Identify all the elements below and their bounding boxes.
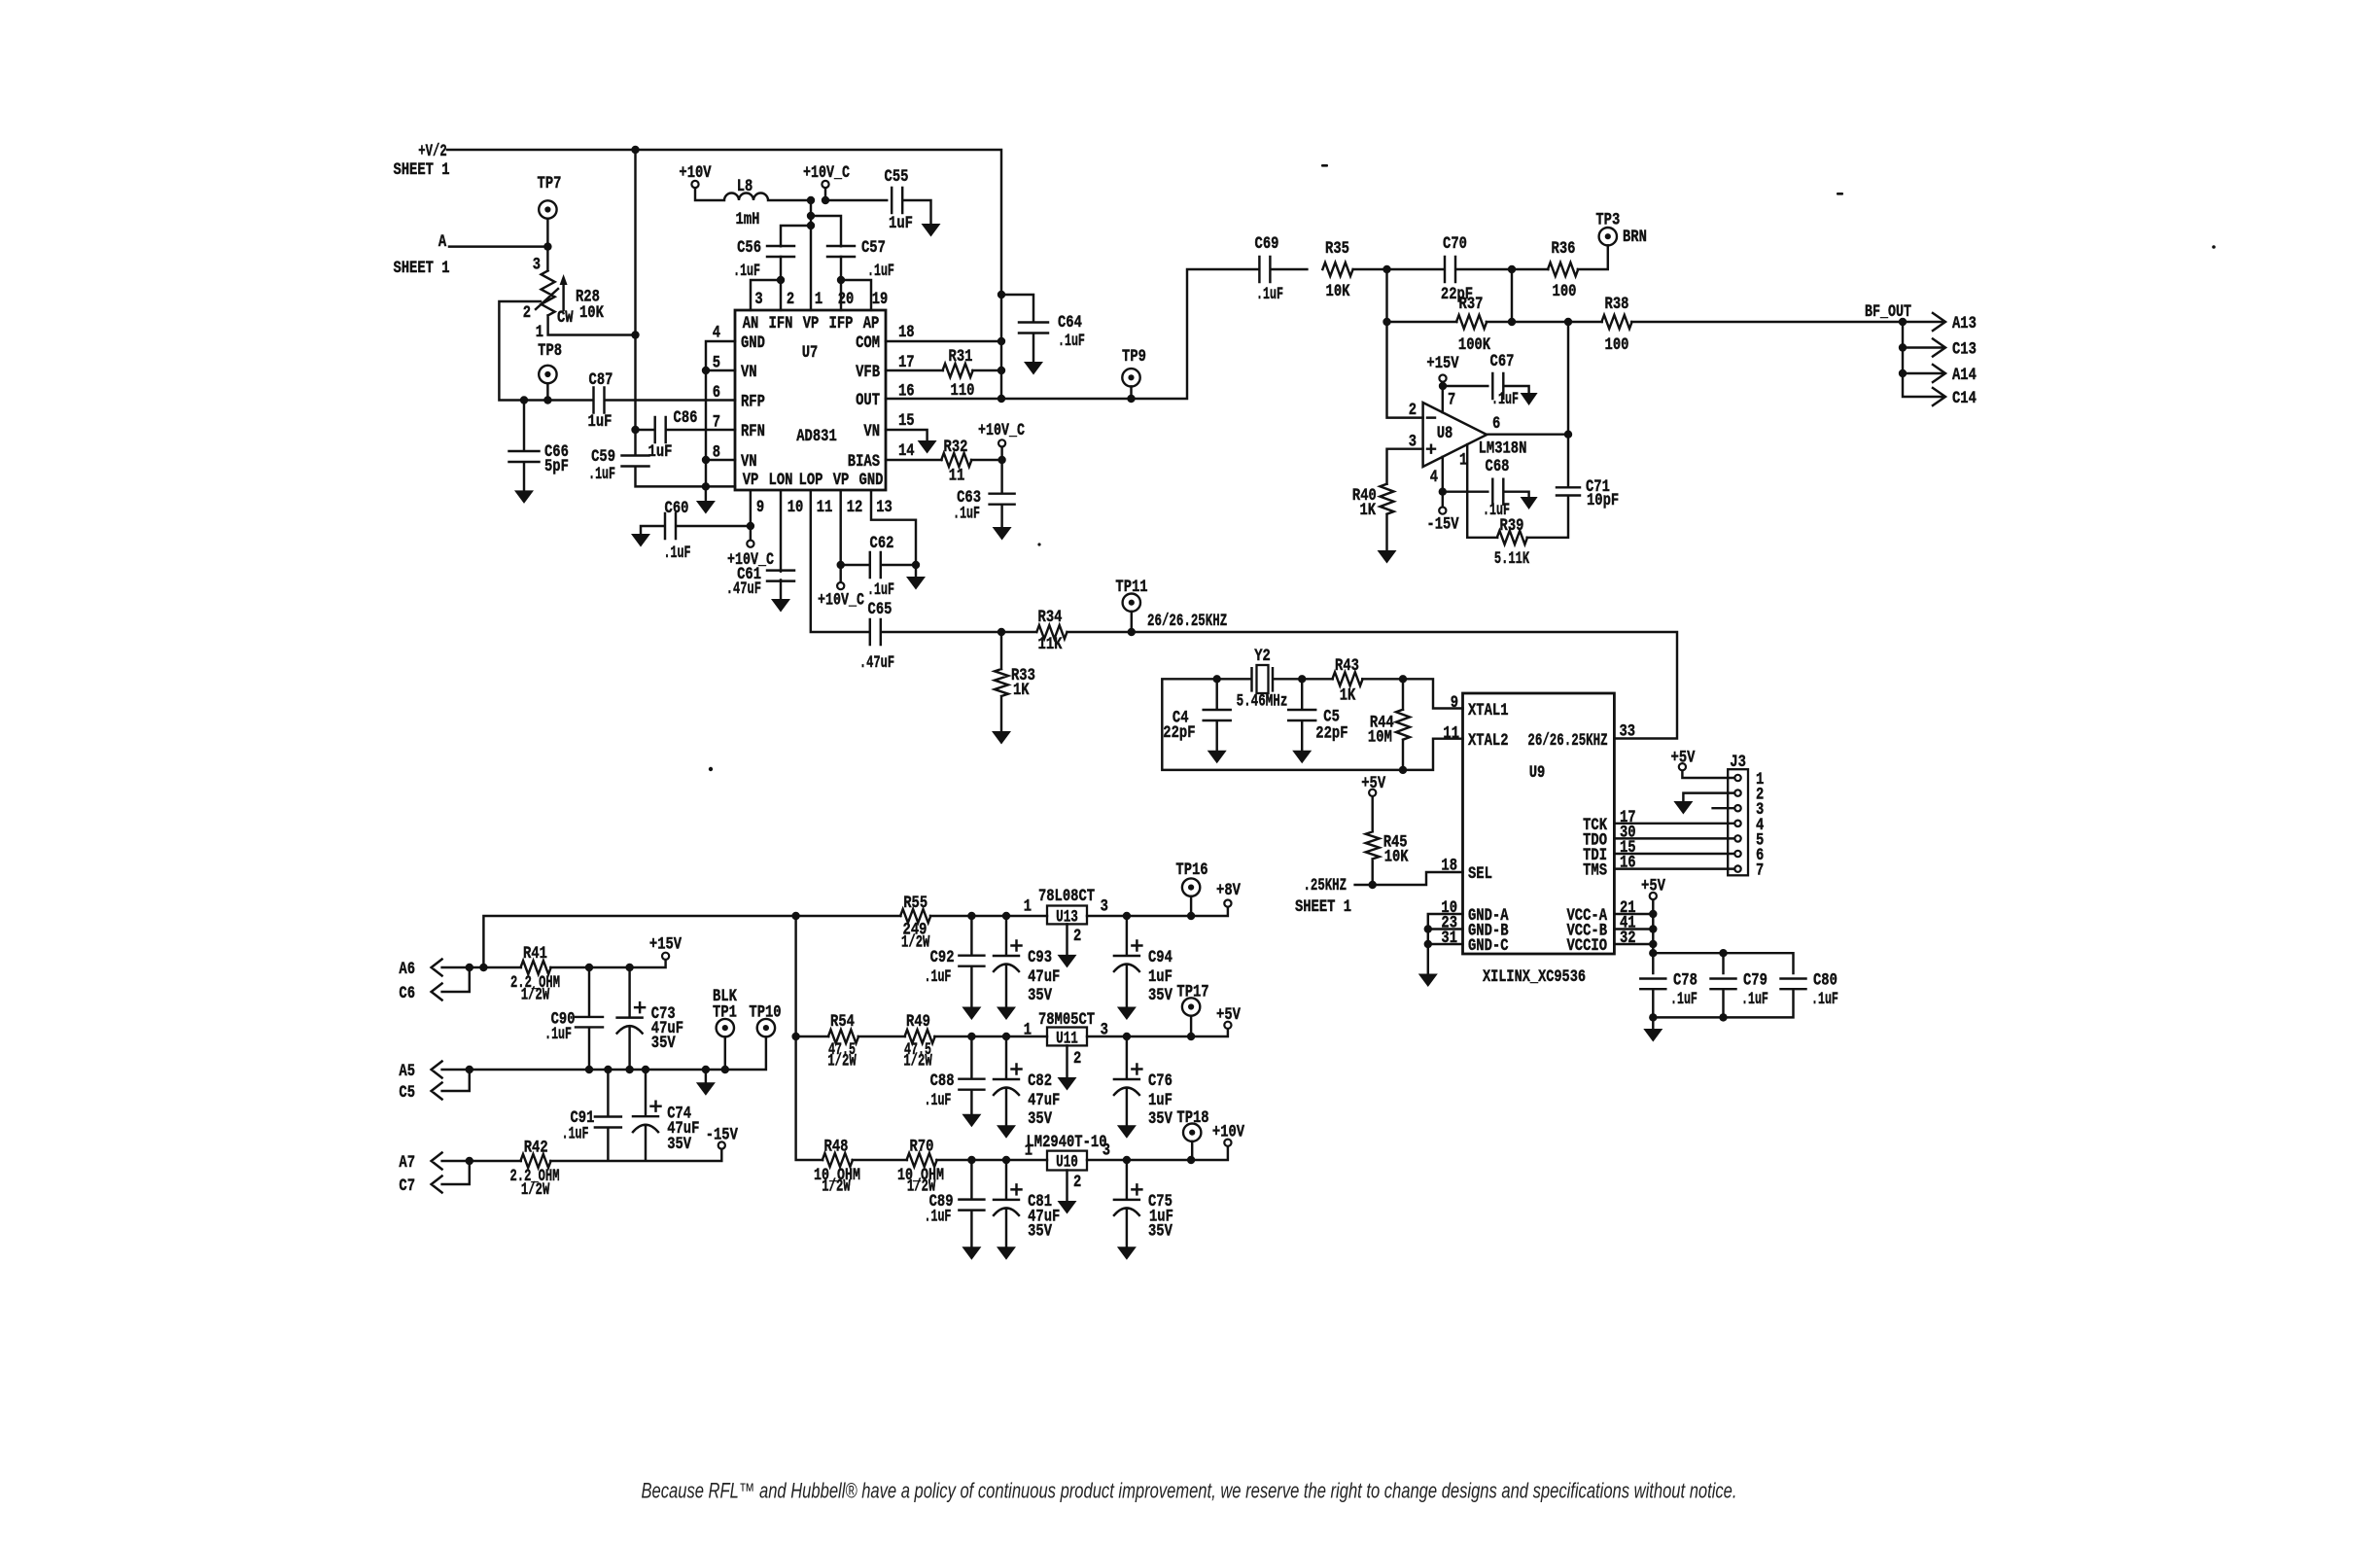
svg-text:TP10: TP10 (749, 1003, 781, 1023)
svg-text:.1uF: .1uF (925, 967, 952, 987)
svg-text:LOP: LOP (799, 471, 823, 490)
svg-text:32: 32 (1620, 929, 1636, 948)
svg-text:1: 1 (536, 323, 543, 342)
svg-text:TP9: TP9 (1122, 347, 1146, 367)
svg-text:.25KHZ: .25KHZ (1304, 876, 1347, 895)
svg-text:26/26.25KHZ: 26/26.25KHZ (1527, 731, 1607, 751)
svg-text:C57: C57 (861, 238, 886, 258)
svg-text:+5V: +5V (1216, 1005, 1241, 1025)
svg-text:C88: C88 (930, 1071, 955, 1091)
svg-text:10pF: 10pF (1587, 491, 1619, 510)
svg-text:-15V: -15V (1426, 515, 1459, 535)
svg-text:OUT: OUT (856, 391, 880, 410)
svg-text:1/2W: 1/2W (521, 986, 550, 1005)
svg-text:R54: R54 (830, 1012, 855, 1032)
svg-text:VP: VP (833, 471, 850, 490)
svg-text:35V: 35V (667, 1135, 691, 1154)
svg-text:100: 100 (1605, 335, 1629, 355)
svg-text:C93: C93 (1028, 948, 1052, 967)
svg-text:100: 100 (1553, 282, 1577, 301)
svg-text:LM318N: LM318N (1479, 439, 1527, 458)
svg-text:LM2940T-10: LM2940T-10 (1027, 1133, 1107, 1152)
svg-text:1mH: 1mH (736, 210, 760, 229)
svg-text:.1uF: .1uF (1058, 332, 1085, 351)
svg-text:+10V_C: +10V_C (803, 163, 850, 183)
svg-text:4: 4 (713, 324, 720, 343)
svg-text:TP11: TP11 (1115, 578, 1147, 597)
svg-text:U9: U9 (1529, 763, 1546, 783)
svg-text:3: 3 (1101, 896, 1108, 916)
svg-text:3: 3 (1102, 1141, 1110, 1161)
svg-text:1/2W: 1/2W (901, 932, 930, 952)
svg-text:SHEET 1: SHEET 1 (393, 259, 449, 278)
svg-text:2: 2 (1073, 927, 1081, 946)
svg-text:1: 1 (1459, 450, 1467, 470)
svg-text:A: A (438, 232, 447, 252)
svg-text:1: 1 (815, 290, 822, 309)
svg-text:U10: U10 (1056, 1153, 1078, 1173)
svg-text:C13: C13 (1952, 340, 1977, 360)
svg-text:C80: C80 (1813, 971, 1837, 991)
svg-text:+5V: +5V (1641, 877, 1665, 896)
svg-text:RFN: RFN (741, 422, 765, 441)
svg-text:2: 2 (787, 290, 794, 309)
svg-text:XTAL2: XTAL2 (1468, 731, 1509, 751)
svg-text:.1uF: .1uF (544, 1025, 572, 1044)
svg-text:2: 2 (1409, 401, 1417, 420)
svg-text:10: 10 (787, 498, 804, 517)
svg-text:J3: J3 (1730, 753, 1746, 772)
svg-text:U7: U7 (802, 343, 819, 363)
svg-text:R41: R41 (523, 944, 547, 964)
svg-text:47uF: 47uF (1028, 1091, 1060, 1110)
svg-text:35V: 35V (1148, 1221, 1172, 1241)
svg-text:IFN: IFN (769, 314, 793, 334)
svg-text:AD831: AD831 (796, 427, 837, 446)
svg-text:SEL: SEL (1468, 864, 1492, 884)
svg-text:12: 12 (847, 498, 863, 517)
svg-text:7: 7 (713, 413, 720, 433)
svg-text:3: 3 (533, 256, 541, 275)
svg-text:C87: C87 (589, 370, 613, 390)
svg-text:26/26.25KHZ: 26/26.25KHZ (1147, 612, 1227, 631)
svg-text:.1uF: .1uF (664, 544, 691, 563)
svg-text:35V: 35V (1028, 986, 1052, 1005)
svg-text:R48: R48 (824, 1138, 849, 1157)
svg-text:L8: L8 (737, 177, 753, 196)
svg-text:VN: VN (741, 363, 757, 382)
svg-text:+8V: +8V (1216, 881, 1241, 900)
svg-text:C69: C69 (1255, 234, 1279, 254)
svg-text:C64: C64 (1058, 313, 1082, 333)
svg-text:16: 16 (898, 382, 915, 402)
svg-text:35V: 35V (1148, 1109, 1172, 1129)
svg-text:U11: U11 (1056, 1030, 1078, 1049)
svg-text:R35: R35 (1325, 239, 1349, 259)
svg-text:10K: 10K (579, 303, 604, 323)
svg-text:C67: C67 (1490, 352, 1515, 371)
svg-text:+15V: +15V (1426, 354, 1459, 373)
svg-text:35V: 35V (1028, 1221, 1052, 1241)
svg-text:110: 110 (951, 381, 975, 401)
svg-text:100K: 100K (1458, 335, 1491, 355)
svg-text:19: 19 (872, 290, 889, 309)
svg-text:3: 3 (1101, 1021, 1108, 1040)
svg-text:5: 5 (713, 353, 720, 372)
svg-text:1uF: 1uF (648, 442, 673, 462)
svg-text:C94: C94 (1148, 948, 1172, 967)
svg-text:1/2W: 1/2W (827, 1052, 857, 1071)
svg-text:1K: 1K (1340, 685, 1356, 705)
svg-text:1/2W: 1/2W (903, 1052, 932, 1071)
svg-text:2: 2 (1073, 1173, 1081, 1192)
svg-text:AP: AP (863, 314, 880, 334)
svg-text:1: 1 (1025, 1141, 1032, 1161)
svg-text:R70: R70 (910, 1138, 934, 1157)
svg-text:35V: 35V (1028, 1109, 1052, 1129)
svg-text:.1uF: .1uF (867, 262, 894, 281)
svg-text:GND: GND (741, 334, 765, 353)
svg-text:14: 14 (898, 441, 915, 461)
svg-text:VP: VP (743, 471, 759, 490)
svg-text:78M05CT: 78M05CT (1038, 1010, 1095, 1030)
svg-text:22pF: 22pF (1315, 724, 1347, 744)
svg-text:11: 11 (1443, 724, 1459, 744)
svg-text:SHEET 1: SHEET 1 (393, 160, 449, 180)
svg-text:.47uF: .47uF (726, 579, 761, 599)
svg-text:-15V: -15V (706, 1126, 739, 1145)
svg-text:11: 11 (949, 467, 965, 486)
svg-text:Because RFL™ and Hubbell® have: Because RFL™ and Hubbell® have a policy … (642, 1479, 1737, 1503)
svg-text:.1uF: .1uF (1811, 990, 1838, 1009)
svg-text:2: 2 (1073, 1049, 1081, 1069)
svg-text:TP17: TP17 (1176, 983, 1208, 1002)
svg-text:C56: C56 (737, 238, 761, 258)
svg-text:11: 11 (817, 498, 833, 517)
svg-text:C92: C92 (930, 948, 955, 967)
svg-text:C7: C7 (399, 1176, 415, 1196)
svg-text:R38: R38 (1605, 295, 1629, 314)
svg-text:4: 4 (1430, 468, 1438, 487)
svg-text:.1uF: .1uF (1670, 990, 1697, 1009)
svg-text:.47uF: .47uF (859, 653, 894, 673)
svg-text:C55: C55 (885, 167, 909, 187)
svg-text:TMS: TMS (1583, 861, 1607, 881)
svg-text:C78: C78 (1673, 971, 1697, 991)
svg-text:78L08CT: 78L08CT (1038, 887, 1095, 906)
svg-text:.1uF: .1uF (925, 1091, 952, 1110)
svg-text:GND: GND (859, 471, 884, 490)
svg-text:AN: AN (743, 314, 759, 334)
svg-text:9: 9 (756, 498, 764, 517)
svg-text:C5: C5 (399, 1083, 415, 1103)
svg-text:3: 3 (754, 290, 762, 309)
svg-text:CW: CW (557, 308, 574, 328)
svg-text:U8: U8 (1437, 424, 1453, 443)
svg-text:17: 17 (898, 353, 915, 372)
svg-text:C70: C70 (1443, 234, 1467, 254)
svg-text:.1uF: .1uF (925, 1208, 952, 1227)
svg-text:BIAS: BIAS (848, 452, 880, 472)
svg-text:.1uF: .1uF (867, 580, 894, 600)
svg-text:11K: 11K (1038, 635, 1063, 654)
svg-text:31: 31 (1441, 929, 1457, 948)
svg-text:16: 16 (1620, 854, 1636, 873)
svg-text:IFP: IFP (829, 314, 854, 334)
svg-text:35V: 35V (1148, 986, 1172, 1005)
svg-text:10K: 10K (1384, 848, 1409, 867)
svg-text:1uF: 1uF (588, 412, 612, 432)
svg-text:35V: 35V (651, 1034, 676, 1053)
svg-text:1K: 1K (1360, 501, 1377, 520)
svg-text:C82: C82 (1028, 1071, 1052, 1091)
svg-text:C86: C86 (674, 408, 698, 428)
svg-text:.1uF: .1uF (733, 262, 760, 281)
svg-text:+15V: +15V (649, 935, 682, 955)
svg-text:+10V_C: +10V_C (978, 421, 1025, 440)
svg-text:A14: A14 (1952, 366, 1977, 385)
svg-text:.1uF: .1uF (953, 504, 980, 523)
svg-text:BRN: BRN (1623, 228, 1647, 247)
svg-text:A7: A7 (399, 1153, 415, 1173)
svg-text:C14: C14 (1952, 389, 1977, 408)
svg-text:TP3: TP3 (1595, 211, 1620, 230)
svg-text:10M: 10M (1368, 728, 1392, 748)
svg-text:VP: VP (803, 314, 820, 334)
svg-text:TP8: TP8 (538, 341, 562, 361)
svg-text:C65: C65 (868, 600, 892, 619)
svg-text:47uF: 47uF (1028, 967, 1060, 987)
svg-text:10K: 10K (1326, 282, 1350, 301)
svg-text:A6: A6 (399, 960, 415, 979)
svg-text:7: 7 (1448, 391, 1455, 410)
svg-text:7: 7 (1756, 861, 1764, 881)
svg-text:R55: R55 (903, 894, 927, 913)
svg-text:1: 1 (1024, 896, 1032, 916)
svg-text:15: 15 (898, 411, 915, 431)
svg-text:Y2: Y2 (1254, 647, 1271, 666)
svg-text:TP16: TP16 (1175, 860, 1207, 880)
svg-text:.1uF: .1uF (1256, 285, 1283, 304)
svg-text:C76: C76 (1148, 1071, 1172, 1091)
svg-text:1K: 1K (1013, 681, 1030, 700)
svg-text:9: 9 (1451, 693, 1458, 713)
svg-text:BF_OUT: BF_OUT (1865, 302, 1911, 322)
svg-text:COM: COM (856, 334, 880, 353)
svg-text:SHEET 1: SHEET 1 (1295, 897, 1351, 917)
svg-text:.1uF: .1uF (1741, 990, 1768, 1009)
svg-text:TP7: TP7 (538, 174, 562, 193)
svg-text:R36: R36 (1552, 239, 1576, 259)
svg-text:C62: C62 (870, 534, 894, 553)
svg-text:18: 18 (898, 323, 915, 342)
svg-text:C79: C79 (1743, 971, 1767, 991)
svg-text:2: 2 (523, 303, 531, 323)
svg-text:+5V: +5V (1361, 774, 1385, 793)
svg-text:VN: VN (863, 422, 880, 441)
svg-text:1/2W: 1/2W (521, 1180, 550, 1200)
svg-text:+V/2: +V/2 (418, 142, 446, 161)
svg-text:R34: R34 (1038, 608, 1063, 627)
svg-text:VFB: VFB (856, 363, 880, 382)
svg-text:R37: R37 (1459, 295, 1484, 314)
svg-text:XTAL1: XTAL1 (1468, 701, 1509, 720)
svg-text:RFP: RFP (741, 393, 765, 412)
svg-text:VN: VN (741, 452, 757, 472)
svg-text:TP18: TP18 (1176, 1108, 1208, 1128)
svg-text:R43: R43 (1335, 656, 1359, 676)
svg-text:1uF: 1uF (1148, 967, 1172, 987)
svg-text:TP1: TP1 (713, 1003, 737, 1023)
svg-text:3: 3 (1409, 433, 1417, 452)
svg-text:1: 1 (1024, 1021, 1032, 1040)
svg-text:C6: C6 (399, 984, 415, 1003)
svg-text:+10V: +10V (679, 163, 712, 183)
svg-text:22pF: 22pF (1163, 723, 1195, 743)
svg-text:R42: R42 (524, 1139, 548, 1158)
svg-text:1uF: 1uF (1148, 1091, 1172, 1110)
svg-text:A13: A13 (1952, 314, 1977, 334)
svg-text:R49: R49 (906, 1012, 930, 1032)
svg-text:R32: R32 (944, 438, 968, 457)
svg-text:.1uF: .1uF (562, 1125, 589, 1144)
svg-text:5.11K: 5.11K (1494, 549, 1530, 569)
svg-text:R31: R31 (949, 347, 973, 367)
svg-text:20: 20 (838, 290, 855, 309)
svg-text:.1uF: .1uF (1491, 390, 1519, 409)
svg-text:+5V: +5V (1671, 749, 1696, 768)
svg-text:R39: R39 (1500, 516, 1524, 536)
svg-text:1uF: 1uF (889, 214, 913, 233)
svg-text:18: 18 (1441, 857, 1457, 876)
svg-text:.1uF: .1uF (588, 465, 615, 484)
svg-text:+10V_C: +10V_C (818, 591, 864, 611)
svg-text:GND-C: GND-C (1468, 936, 1509, 956)
svg-text:A5: A5 (399, 1062, 415, 1081)
svg-text:6: 6 (713, 383, 720, 403)
svg-text:+10V: +10V (1212, 1123, 1245, 1142)
svg-text:13: 13 (876, 498, 892, 517)
svg-text:LON: LON (769, 471, 793, 490)
svg-text:C60: C60 (665, 499, 689, 518)
svg-text:6: 6 (1492, 414, 1500, 434)
svg-text:33: 33 (1620, 722, 1636, 742)
svg-text:U13: U13 (1056, 908, 1078, 928)
svg-text:1/2W: 1/2W (822, 1177, 851, 1197)
svg-text:5pF: 5pF (544, 457, 569, 476)
svg-text:XILINX_XC9536: XILINX_XC9536 (1483, 967, 1586, 987)
svg-text:8: 8 (713, 442, 720, 462)
svg-text:C68: C68 (1486, 457, 1510, 476)
svg-text:5.46MHz: 5.46MHz (1237, 692, 1288, 712)
svg-text:VCCIO: VCCIO (1567, 936, 1608, 956)
svg-text:C59: C59 (591, 447, 615, 467)
